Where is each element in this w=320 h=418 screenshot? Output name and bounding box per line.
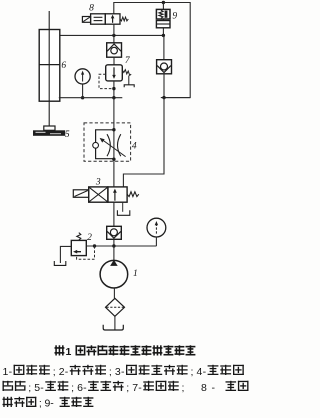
check valve V1 seat bbox=[107, 44, 121, 51]
throttle arrow bbox=[103, 140, 126, 157]
svg-text:;: ; bbox=[39, 398, 42, 410]
svg-text:-: - bbox=[203, 366, 207, 378]
reducing valve U7 body bbox=[106, 65, 123, 81]
svg-text:1: 1 bbox=[3, 366, 9, 378]
check valve V3 seat bbox=[107, 231, 121, 238]
svg-text:;: ; bbox=[28, 382, 31, 394]
wire valve3 P line bbox=[113, 202, 115, 226]
node accumulator branch bbox=[162, 34, 165, 37]
cylinder C body bbox=[39, 30, 60, 102]
svg-text:;: ; bbox=[191, 366, 194, 378]
filter diamond bbox=[106, 298, 125, 316]
node throttle bottom tee bbox=[112, 158, 115, 161]
svg-text:-: - bbox=[9, 366, 13, 378]
accumulator spring bbox=[159, 10, 163, 18]
wire bypass branch bbox=[123, 98, 164, 187]
wire top rail bbox=[114, 3, 190, 98]
svg-text:6: 6 bbox=[61, 61, 66, 71]
valve 7 drain line bbox=[128, 76, 130, 85]
node gauge G1 tee bbox=[81, 96, 84, 99]
node throttle top tee bbox=[112, 128, 115, 131]
wire pump to bus bbox=[113, 246, 115, 261]
relief valve 2 arrow bbox=[76, 251, 81, 253]
wire check to valve7 bbox=[113, 57, 115, 65]
svg-text:4: 4 bbox=[197, 366, 203, 378]
svg-text:8: 8 bbox=[201, 382, 207, 394]
svg-text:2: 2 bbox=[87, 233, 92, 243]
valve 7 drain tank bbox=[124, 85, 134, 88]
valve 3 tank line bbox=[122, 202, 124, 212]
check valve V1 box bbox=[107, 43, 122, 57]
node pump tee bbox=[112, 244, 115, 247]
node right branch bbox=[162, 96, 165, 99]
valve 3 right position box bbox=[108, 187, 127, 202]
solenoid of valve 8 bbox=[82, 17, 90, 23]
svg-text:1: 1 bbox=[66, 346, 72, 358]
check valve V1 ball bbox=[111, 47, 118, 54]
svg-text:;: ; bbox=[126, 382, 129, 394]
check valve V2 box bbox=[157, 60, 172, 74]
svg-text:-: - bbox=[65, 366, 69, 378]
pressure gauge G2 bbox=[147, 218, 166, 237]
svg-text:4: 4 bbox=[132, 142, 137, 152]
pressure gauge G1 bbox=[75, 69, 90, 84]
valve 3 left position box bbox=[89, 187, 108, 202]
throttle arcs bbox=[107, 134, 110, 156]
wire check V3 down bbox=[113, 239, 115, 246]
check valve V2 seat bbox=[157, 66, 171, 73]
grinding wheel hub bbox=[44, 126, 55, 130]
valve 7 pilot line bbox=[99, 74, 114, 88]
svg-text:9: 9 bbox=[172, 12, 177, 22]
caption title: 图1 磨头升降液压系统原理图 bbox=[55, 345, 65, 355]
svg-text:2: 2 bbox=[59, 366, 65, 378]
wire cylinder rod-end line bbox=[59, 34, 164, 36]
svg-text:;: ; bbox=[109, 366, 112, 378]
svg-text:-: - bbox=[40, 382, 44, 394]
accumulator U1 shell bbox=[156, 9, 170, 19]
pump P1 triangle bbox=[110, 260, 118, 266]
relief tank bbox=[54, 261, 66, 265]
svg-text:8: 8 bbox=[89, 4, 94, 14]
relief pilot line bbox=[77, 246, 95, 259]
svg-text:1: 1 bbox=[133, 269, 138, 279]
wire accumulator to check V2 bbox=[163, 35, 165, 59]
wire accumulator drop bbox=[162, 3, 164, 36]
reducing valve U7 arrow bbox=[113, 67, 115, 76]
wire gauge G2 drop bbox=[155, 237, 157, 246]
svg-text:3: 3 bbox=[95, 177, 101, 187]
svg-text:-: - bbox=[121, 366, 125, 378]
accumulator piston box bbox=[156, 21, 170, 28]
svg-text:;: ; bbox=[53, 366, 56, 378]
valve 3 tank bbox=[117, 210, 129, 215]
svg-text:;: ; bbox=[71, 382, 74, 394]
valve 8 right position box bbox=[105, 14, 120, 24]
throttle bypass loop bbox=[96, 130, 114, 159]
svg-text:-: - bbox=[50, 398, 54, 410]
check valve V3 box bbox=[107, 226, 122, 239]
node accumulator tee on top rail bbox=[162, 1, 165, 4]
node valve8 branch bbox=[112, 34, 115, 37]
piston rod bbox=[48, 11, 50, 126]
svg-text:-: - bbox=[138, 382, 142, 394]
node pilot tee bbox=[112, 87, 115, 90]
check valve V2 ball bbox=[161, 63, 168, 70]
svg-text:3: 3 bbox=[115, 366, 121, 378]
cylinder piston bbox=[39, 64, 60, 66]
svg-text:-: - bbox=[83, 382, 87, 394]
svg-text:-: - bbox=[212, 382, 216, 394]
check valve V3 ball bbox=[110, 229, 117, 236]
bypass check ball bbox=[93, 142, 99, 148]
gauge G1 drop bbox=[82, 84, 84, 98]
svg-text:;: ; bbox=[182, 382, 185, 394]
wire check V2 down bbox=[163, 74, 165, 98]
wire right bus bbox=[161, 97, 190, 99]
spring of valve 2 bbox=[77, 233, 81, 241]
wire main drop bbox=[113, 98, 115, 187]
wire filter to tank bbox=[114, 316, 116, 329]
valve 8 left position box bbox=[91, 14, 106, 24]
pump P1 circle bbox=[100, 260, 128, 288]
spring of valve 3 bbox=[127, 192, 139, 197]
legend line 2: 流阀；5-砂轮；6-液压缸；7-减压阀；8-电磁 bbox=[3, 381, 14, 391]
wire check drop bbox=[113, 35, 115, 42]
spring of valve 8 bbox=[120, 17, 128, 21]
legend line 3: 换向阀；9-蓄能器 bbox=[3, 397, 13, 407]
relief valve 2 body bbox=[71, 240, 86, 255]
wire pump suction bbox=[113, 288, 115, 298]
svg-text:5: 5 bbox=[65, 130, 70, 140]
grinding wheel disc bbox=[33, 130, 65, 136]
wire cylinder cap-end bus bbox=[59, 97, 123, 99]
wire pump bus bbox=[86, 245, 156, 247]
main tank bbox=[103, 325, 123, 330]
solenoid of valve 3 bbox=[73, 190, 88, 198]
node main drop tee bbox=[112, 96, 115, 99]
wire valve8 to check bbox=[113, 24, 115, 35]
wire valve7 outlet bbox=[113, 81, 115, 98]
node pilot2 tee bbox=[93, 244, 96, 247]
throttle assembly 4 enclosure bbox=[84, 123, 131, 161]
wire relief to tank bbox=[60, 246, 71, 263]
spring of valve 7 bbox=[122, 70, 131, 76]
